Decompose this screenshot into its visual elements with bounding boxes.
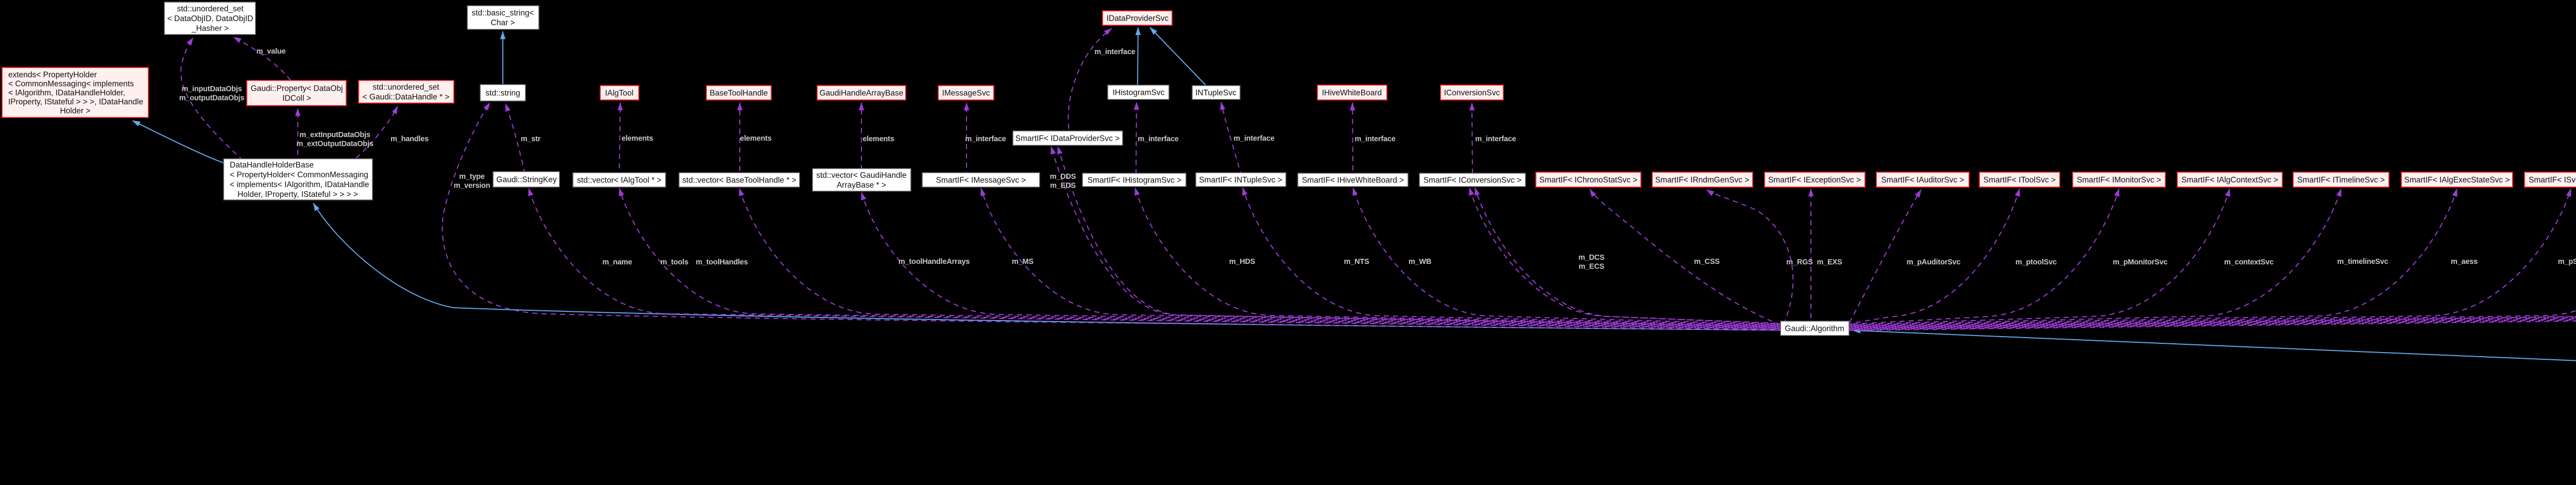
svg-text:m_interface: m_interface xyxy=(965,135,1006,143)
svg-text:INTupleSvc: INTupleSvc xyxy=(1195,89,1236,97)
svg-text:Gaudi::Property< DataObj: Gaudi::Property< DataObj xyxy=(251,84,343,93)
svg-text:m_interface: m_interface xyxy=(1138,135,1178,143)
svg-text:Gaudi::Algorithm: Gaudi::Algorithm xyxy=(1785,324,1844,333)
svg-text:extends< PropertyHolder: extends< PropertyHolder xyxy=(8,71,97,79)
svg-text:SmartIF< IExceptionSvc >: SmartIF< IExceptionSvc > xyxy=(1768,176,1861,185)
svg-text:IHiveWhiteBoard: IHiveWhiteBoard xyxy=(1322,89,1382,97)
svg-text:std::vector< IAlgTool * >: std::vector< IAlgTool * > xyxy=(577,176,662,185)
svg-text:< Gaudi::DataHandle * >: < Gaudi::DataHandle * > xyxy=(363,93,450,102)
svg-text:_Hasher >: _Hasher > xyxy=(191,24,229,33)
svg-text:m_WB: m_WB xyxy=(1409,258,1431,266)
svg-text:m_interface: m_interface xyxy=(1354,135,1395,143)
svg-text:std::vector< GaudiHandle: std::vector< GaudiHandle xyxy=(816,171,906,180)
svg-text:ArrayBase * >: ArrayBase * > xyxy=(837,181,886,190)
svg-text:m_pAuditorSvc: m_pAuditorSvc xyxy=(1907,258,1961,266)
svg-text:m_MS: m_MS xyxy=(1012,258,1033,266)
svg-text:m_RGS: m_RGS xyxy=(1786,258,1813,266)
svg-text:< IAlgorithm, IDataHandleHolde: < IAlgorithm, IDataHandleHolder, xyxy=(8,89,125,97)
svg-text:m_ECS: m_ECS xyxy=(1579,262,1604,271)
svg-text:IHistogramSvc: IHistogramSvc xyxy=(1113,88,1165,97)
svg-text:m_aess: m_aess xyxy=(2451,258,2478,266)
svg-text:GaudiHandleArrayBase: GaudiHandleArrayBase xyxy=(820,89,904,97)
svg-text:m_NTS: m_NTS xyxy=(1344,258,1369,266)
svg-text:SmartIF< IAlgContextSvc >: SmartIF< IAlgContextSvc > xyxy=(2181,176,2278,185)
svg-text:SmartIF< IDataProviderSvc >: SmartIF< IDataProviderSvc > xyxy=(1015,134,1120,143)
svg-text:m_contextSvc: m_contextSvc xyxy=(2224,258,2274,266)
svg-text:Gaudi::StringKey: Gaudi::StringKey xyxy=(496,175,556,184)
svg-text:m_str: m_str xyxy=(521,135,541,143)
svg-text:SmartIF< IConversionSvc >: SmartIF< IConversionSvc > xyxy=(1423,176,1521,185)
svg-text:m_version: m_version xyxy=(454,181,490,190)
svg-text:m_DCS: m_DCS xyxy=(1579,254,1605,262)
svg-text:m_CSS: m_CSS xyxy=(1694,258,1720,266)
svg-text:IConversionSvc: IConversionSvc xyxy=(1444,89,1500,97)
svg-text:SmartIF< IChronoStatSvc >: SmartIF< IChronoStatSvc > xyxy=(1539,176,1637,185)
svg-text:SmartIF< IHiveWhiteBoard >: SmartIF< IHiveWhiteBoard > xyxy=(1302,176,1404,185)
svg-text:m_interface: m_interface xyxy=(1233,135,1274,143)
svg-text:SmartIF< IMonitorSvc >: SmartIF< IMonitorSvc > xyxy=(2077,176,2161,185)
svg-text:m_value: m_value xyxy=(257,47,286,56)
svg-text:std::unordered_set: std::unordered_set xyxy=(177,5,244,13)
svg-text:m_inputDataObjs: m_inputDataObjs xyxy=(181,85,242,93)
svg-text:m_toolHandleArrays: m_toolHandleArrays xyxy=(899,258,970,266)
svg-text:m_timelineSvc: m_timelineSvc xyxy=(2337,258,2388,266)
svg-text:Holder, IProperty, IStateful >: Holder, IProperty, IStateful > > > > xyxy=(238,190,358,199)
svg-text:SmartIF< IToolSvc >: SmartIF< IToolSvc > xyxy=(1984,176,2056,185)
svg-text:m_interface: m_interface xyxy=(1475,135,1516,143)
svg-text:Holder >: Holder > xyxy=(60,107,90,115)
svg-text:m_interface: m_interface xyxy=(1094,48,1135,56)
svg-text:< CommonMessaging< implements: < CommonMessaging< implements xyxy=(8,79,134,88)
svg-text:m_EDS: m_EDS xyxy=(1050,181,1076,190)
svg-text:m_pMonitorSvc: m_pMonitorSvc xyxy=(2113,258,2167,266)
svg-text:m_DDS: m_DDS xyxy=(1050,173,1076,181)
svg-text:SmartIF< IRndmGenSvc >: SmartIF< IRndmGenSvc > xyxy=(1655,176,1750,185)
svg-text:SmartIF< INTupleSvc >: SmartIF< INTupleSvc > xyxy=(1199,176,1282,185)
svg-text:IDColl >: IDColl > xyxy=(282,94,311,103)
svg-text:< implements< IAlgorithm, IDat: < implements< IAlgorithm, IDataHandle xyxy=(230,180,369,189)
svg-text:IMessageSvc: IMessageSvc xyxy=(942,89,990,97)
svg-text:m_tools: m_tools xyxy=(660,258,688,266)
svg-text:std::string: std::string xyxy=(485,89,520,97)
svg-text:IDataProviderSvc: IDataProviderSvc xyxy=(1107,14,1169,23)
svg-text:std::vector< BaseToolHandle *: std::vector< BaseToolHandle * > xyxy=(682,176,796,185)
svg-text:SmartIF< IAuditorSvc >: SmartIF< IAuditorSvc > xyxy=(1881,176,1964,185)
svg-text:m_extInputDataObjs: m_extInputDataObjs xyxy=(299,131,370,139)
svg-text:m_HDS: m_HDS xyxy=(1229,258,1256,266)
svg-text:m_toolHandles: m_toolHandles xyxy=(696,258,748,266)
svg-text:SmartIF< ISvcLocator >: SmartIF< ISvcLocator > xyxy=(2529,176,2576,185)
svg-text:elements: elements xyxy=(740,135,771,143)
svg-text:DataHandleHolderBase: DataHandleHolderBase xyxy=(230,161,314,170)
svg-text:IProperty, IStateful > > >, ID: IProperty, IStateful > > >, IDataHandle xyxy=(8,97,143,106)
svg-text:m_name: m_name xyxy=(602,258,632,266)
svg-text:m_EXS: m_EXS xyxy=(1817,258,1842,266)
svg-text:m_outputDataObjs: m_outputDataObjs xyxy=(179,94,245,102)
svg-text:SmartIF< ITimelineSvc >: SmartIF< ITimelineSvc > xyxy=(2297,176,2385,185)
svg-text:m_type: m_type xyxy=(459,173,485,181)
svg-text:elements: elements xyxy=(621,135,653,143)
svg-text:Char >: Char > xyxy=(491,19,515,27)
svg-text:SmartIF< IMessageSvc >: SmartIF< IMessageSvc > xyxy=(936,176,1026,185)
svg-text:m_handles: m_handles xyxy=(391,135,429,143)
svg-text:BaseToolHandle: BaseToolHandle xyxy=(710,89,768,97)
svg-text:< DataObjID, DataObjID: < DataObjID, DataObjID xyxy=(167,14,253,23)
svg-text:SmartIF< IHistogramSvc >: SmartIF< IHistogramSvc > xyxy=(1088,176,1182,185)
svg-text:m_pSvcLocator: m_pSvcLocator xyxy=(2558,258,2576,266)
svg-text:IAlgTool: IAlgTool xyxy=(605,89,633,97)
svg-text:std::unordered_set: std::unordered_set xyxy=(372,83,439,92)
svg-text:SmartIF< IAlgExecStateSvc >: SmartIF< IAlgExecStateSvc > xyxy=(2404,176,2510,185)
svg-text:std::basic_string<: std::basic_string< xyxy=(471,9,534,18)
svg-text:< PropertyHolder< CommonMessag: < PropertyHolder< CommonMessaging xyxy=(230,171,368,179)
svg-text:m_ptoolSvc: m_ptoolSvc xyxy=(2015,258,2057,266)
svg-text:m_extOutputDataObjs: m_extOutputDataObjs xyxy=(296,140,373,148)
svg-text:elements: elements xyxy=(862,135,894,143)
